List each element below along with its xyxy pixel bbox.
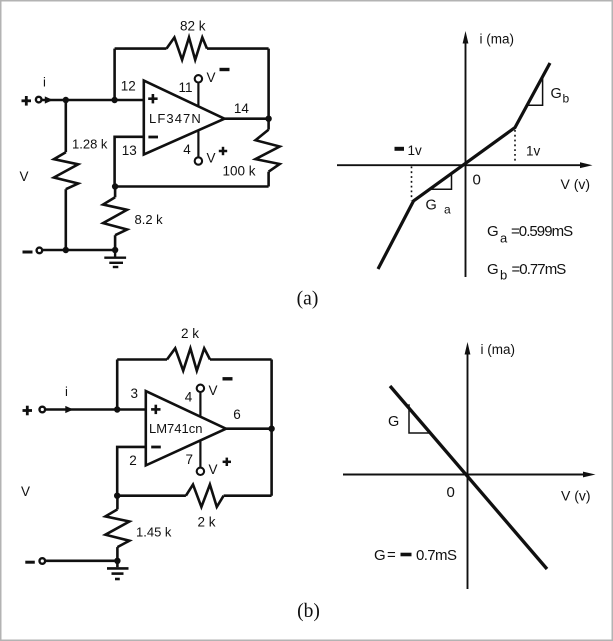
svg-text:V (v): V (v) (561, 176, 591, 192)
resistor 1.45k (105, 496, 129, 561)
op-amp U2 minus input mark (151, 446, 161, 449)
svg-text:G: G (487, 223, 499, 240)
ground (b) (107, 561, 129, 579)
svg-text:8.2 k: 8.2 k (135, 212, 164, 227)
node bottom-2 (a) (112, 247, 118, 253)
svg-text:4: 4 (185, 390, 193, 405)
wire bottom (a) (43, 249, 115, 252)
graph (a) dotted line at -1v (411, 167, 413, 201)
svg-text:2 k: 2 k (181, 326, 199, 341)
wire output (b) (226, 427, 272, 430)
pin 7 line (b) (199, 440, 201, 467)
svg-text:b: b (563, 92, 570, 106)
svg-text:i (ma): i (ma) (480, 32, 515, 47)
svg-text:V: V (207, 70, 216, 85)
svg-text:=0.77mS: =0.77mS (512, 261, 567, 278)
graph (a) dotted line at 1v (514, 130, 516, 164)
wire feedback-left vertical (b) (116, 360, 119, 410)
svg-text:0: 0 (473, 172, 481, 189)
node feedback-bottom (b) (114, 493, 120, 499)
terminal plus (a) (22, 96, 32, 106)
svg-text:11: 11 (178, 80, 192, 95)
resistor 82k (167, 37, 208, 59)
wire feedback-top (b) (117, 358, 271, 361)
resistor 2k bottom (186, 485, 224, 507)
svg-text:G: G (374, 547, 386, 564)
op-amp U1 minus input mark (148, 136, 158, 139)
node ground (b) (114, 558, 120, 564)
graph (b) horizontal axis V (343, 474, 586, 476)
graph (a) label -1v (395, 147, 405, 151)
node input (b) (114, 406, 120, 412)
graph (a) equation Gb value (487, 261, 566, 283)
graph (b) slope indicator G (409, 404, 430, 433)
graph (a) vertical axis i (465, 41, 467, 277)
svg-text:b: b (500, 267, 507, 282)
svg-text:3: 3 (130, 386, 138, 401)
svg-text:i: i (65, 384, 68, 399)
op-amp U1 plus input mark (148, 94, 157, 103)
svg-text:0.7mS: 0.7mS (416, 547, 457, 564)
svg-text:(a): (a) (297, 289, 319, 310)
svg-text:14: 14 (234, 101, 250, 116)
svg-text:V: V (209, 462, 218, 477)
pin 4 circle (195, 157, 202, 164)
node bottom-1 (a) (63, 247, 69, 253)
graph (a) slope indicator Gb (527, 77, 543, 106)
terminal plus (b) (23, 406, 33, 416)
svg-text:1.28 k: 1.28 k (72, 137, 108, 152)
resistor 8.2k (103, 187, 127, 251)
svg-text:LM741cn: LM741cn (149, 421, 202, 436)
svg-text:0: 0 (447, 484, 455, 501)
node feedback-bottom (a) (112, 183, 118, 189)
wire feedback-right vertical (a) (267, 49, 270, 187)
graph (a) equation Ga value (487, 223, 573, 246)
svg-text:i (ma): i (ma) (481, 342, 516, 357)
svg-text:1.45 k: 1.45 k (136, 525, 172, 540)
graph (a) slope indicator Ga (430, 174, 452, 190)
svg-text:=: = (387, 547, 396, 564)
current arrow (a) (45, 96, 53, 103)
svg-text:a: a (500, 231, 508, 246)
resistor 2k top (167, 348, 210, 370)
svg-text:100 k: 100 k (223, 164, 256, 179)
svg-text:2 k: 2 k (198, 515, 216, 530)
wire feedback-bottom (b) (117, 494, 271, 497)
op-amp U2 triangle (146, 391, 226, 465)
svg-text:(b): (b) (297, 601, 320, 622)
wire feedback-right vertical (b) (270, 360, 273, 496)
graph (b) vertical axis i (467, 352, 469, 589)
op-amp U2 plus input mark (151, 405, 160, 414)
pin 4 line (b) (199, 392, 201, 417)
current arrow (b) (65, 406, 73, 413)
wire feedback-left vertical (a) (113, 49, 116, 100)
svg-text:G: G (388, 414, 399, 430)
svg-text:V (v): V (v) (561, 488, 591, 504)
svg-text:G: G (487, 261, 499, 278)
resistor 100k (256, 130, 280, 172)
svg-text:82 k: 82 k (180, 19, 206, 34)
graph (b) equation G value (374, 547, 457, 565)
node input-2 (a) (111, 97, 117, 103)
resistor 1.28k (54, 100, 78, 250)
svg-text:V: V (209, 383, 218, 398)
wire bottom (b) (45, 559, 117, 562)
wire inverting input (a) (115, 137, 144, 187)
ground (a) (104, 250, 126, 267)
svg-text:1v: 1v (526, 144, 541, 159)
graph (a) piecewise i-v curve (378, 63, 550, 269)
svg-text:=0.599mS: =0.599mS (511, 223, 573, 240)
wire input (b) (45, 408, 146, 411)
svg-text:LF347N: LF347N (149, 111, 202, 126)
svg-text:V: V (20, 169, 29, 184)
svg-text:2: 2 (129, 453, 137, 468)
svg-text:G: G (551, 86, 562, 102)
svg-text:1v: 1v (408, 143, 423, 158)
wire output (a) (225, 117, 269, 120)
terminal minus (a) (23, 251, 33, 254)
wire feedback-top (a) (115, 47, 269, 50)
node output (a) (265, 116, 271, 122)
svg-text:a: a (444, 203, 451, 217)
svg-text:13: 13 (122, 143, 137, 158)
wire input (a) (42, 99, 144, 102)
pin 11 line (197, 83, 199, 107)
pin 4 circle (b) (197, 385, 204, 392)
op-amp U1 triangle (144, 81, 225, 155)
node input-1 (a) (63, 97, 69, 103)
pin 4 line (197, 130, 199, 158)
svg-text:i: i (43, 75, 46, 90)
wire inverting input (b) (117, 447, 146, 496)
graph (a) horizontal axis V (337, 164, 583, 166)
svg-text:6: 6 (233, 407, 241, 422)
terminal minus (b) (25, 561, 35, 564)
graph (b) i-v line (390, 386, 547, 569)
svg-text:4: 4 (183, 142, 191, 157)
svg-text:12: 12 (121, 79, 136, 94)
pin 7 circle (b) (197, 468, 204, 475)
node output (b) (268, 426, 274, 432)
svg-text:G: G (426, 197, 437, 213)
svg-text:7: 7 (185, 452, 193, 467)
wire feedback-bottom (a) (115, 185, 269, 188)
pin 11 circle (195, 75, 202, 82)
svg-text:V: V (21, 484, 30, 499)
svg-text:V: V (207, 151, 216, 166)
